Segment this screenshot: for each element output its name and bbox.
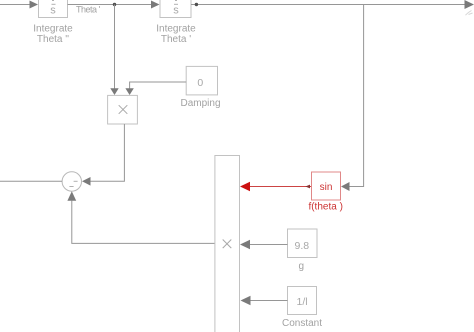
arrowhead into multiply top-left xyxy=(110,88,118,95)
wire 1/l to product xyxy=(251,300,288,302)
svg-text:0: 0 xyxy=(197,77,203,89)
svg-text:f(theta ): f(theta ) xyxy=(308,202,342,213)
svg-text:Integrate: Integrate xyxy=(33,23,73,34)
arrowhead into multiply top-right xyxy=(125,88,133,95)
wire Theta' branch down to multiply xyxy=(114,5,116,89)
svg-text:Damping: Damping xyxy=(180,98,220,109)
constant block Damping xyxy=(186,66,217,95)
svg-text:Theta '': Theta '' xyxy=(37,34,69,45)
arrowhead into integrator U1 xyxy=(30,1,39,9)
wire integrator U1 output to integrator U2 xyxy=(68,4,153,6)
node junction after U2 xyxy=(195,3,198,6)
constant block 9.8 xyxy=(288,229,318,258)
svg-text:Integrate: Integrate xyxy=(156,23,196,34)
wire feedback branch down to sin xyxy=(350,5,364,187)
svg-text:g: g xyxy=(299,261,305,272)
svg-text:9.8: 9.8 xyxy=(294,240,309,252)
svg-text:s: s xyxy=(50,4,56,16)
wire integrator U2 output to right edge xyxy=(191,4,465,6)
node junction Theta' branch xyxy=(113,3,116,6)
red wire sin to product xyxy=(250,186,311,188)
wire product output to sum bottom xyxy=(72,201,215,244)
integrator block Integrate Theta'' xyxy=(39,0,68,18)
arrowhead into sin block xyxy=(341,182,350,191)
wire 9.8 to product xyxy=(250,244,288,246)
integrator block Integrate Theta' xyxy=(160,0,191,18)
svg-text:1/l: 1/l xyxy=(297,296,308,308)
wire sum output to left edge xyxy=(0,180,62,182)
arrowhead up into sum bottom xyxy=(67,191,76,201)
multiply block (damping product) xyxy=(108,95,138,124)
svg-text:Theta ': Theta ' xyxy=(76,5,101,15)
faint mark near right edge xyxy=(466,11,473,16)
sin block (highlighted) xyxy=(312,172,341,200)
arrowhead exiting right edge xyxy=(465,0,474,9)
arrowhead into sum right xyxy=(82,177,91,186)
small dark stub arrow at sin output xyxy=(305,185,310,189)
svg-text:sin: sin xyxy=(320,182,333,193)
arrowhead 1/l into product xyxy=(241,296,251,306)
wire Damping to multiply xyxy=(130,82,187,89)
svg-text:s: s xyxy=(173,4,179,16)
svg-text:Theta ': Theta ' xyxy=(161,34,191,45)
arrowhead into integrator U2 xyxy=(151,1,160,9)
svg-text:Constant: Constant xyxy=(282,318,322,329)
sum block xyxy=(62,172,81,191)
wire into integrator U1 xyxy=(0,4,30,6)
arrowhead 9.8 into product xyxy=(240,240,250,250)
constant block 1/l xyxy=(288,287,317,315)
product block (tall) xyxy=(215,156,240,332)
wire multiply output down and left to sum xyxy=(91,124,125,181)
red arrowhead sin output into product xyxy=(240,182,250,192)
